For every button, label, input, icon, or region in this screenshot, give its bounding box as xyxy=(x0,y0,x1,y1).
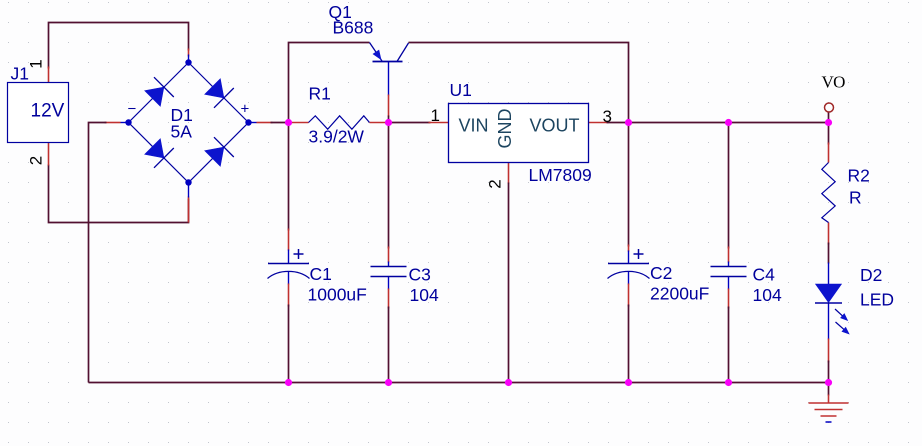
wire bridge top pin stub xyxy=(188,55,190,63)
wire vo stub xyxy=(828,112,830,123)
junction at 828,122 xyxy=(825,119,832,126)
LED D2 xyxy=(815,284,849,334)
node vo terminal xyxy=(825,103,834,112)
diode D1 lower-right xyxy=(205,137,234,166)
capacitor C4 xyxy=(711,267,747,277)
svg-text:R1: R1 xyxy=(309,84,331,104)
wire C2 bottom to ground rail xyxy=(628,272,630,383)
wire J1 pin 1 to bridge AC top xyxy=(49,23,189,83)
wire node C down to C4 xyxy=(728,123,730,267)
transistor Q1 xyxy=(370,43,409,62)
ground symbol xyxy=(809,403,849,422)
wire C1 bottom to ground rail xyxy=(288,272,290,383)
svg-text:3.9/2W: 3.9/2W xyxy=(309,127,365,147)
svg-text:2: 2 xyxy=(27,156,46,165)
svg-text:B688: B688 xyxy=(333,18,374,38)
svg-text:R: R xyxy=(849,188,862,208)
svg-text:VIN: VIN xyxy=(459,116,489,136)
svg-text:2200uF: 2200uF xyxy=(650,284,709,304)
junction at 288,382 xyxy=(285,379,292,386)
svg-text:+: + xyxy=(241,101,250,118)
svg-text:VO: VO xyxy=(822,73,846,92)
svg-text:D2: D2 xyxy=(860,265,882,285)
wire U1 pin 2 to ground rail xyxy=(508,163,510,383)
svg-text:12V: 12V xyxy=(31,101,65,122)
junction bridge plus node xyxy=(245,119,251,125)
junction at 728,122 xyxy=(725,119,732,126)
wire node B to U1 pin 1 xyxy=(389,122,449,124)
svg-text:C1: C1 xyxy=(310,264,332,284)
junction bridge top AC xyxy=(185,59,191,65)
regulator U1 xyxy=(449,104,589,163)
svg-text:LM7809: LM7809 xyxy=(529,165,592,185)
wire Q1 collector to output node xyxy=(409,43,629,123)
junction at 288,122 xyxy=(285,119,292,126)
junction at 628,382 xyxy=(625,379,632,386)
svg-text:C2: C2 xyxy=(650,263,672,283)
wire U1 pin 3 to output node xyxy=(589,122,629,124)
resistor R2 xyxy=(822,163,835,223)
wire ground stem xyxy=(828,383,830,403)
junction at 388,122 xyxy=(385,119,392,126)
wire J1 pin 2 to bridge AC bottom xyxy=(49,143,189,223)
wire output bus to C2 C4 and vo xyxy=(629,122,829,124)
svg-text:5A: 5A xyxy=(171,122,193,142)
svg-text:3: 3 xyxy=(603,107,612,126)
svg-text:U1: U1 xyxy=(450,80,472,100)
connector J1 xyxy=(8,64,69,143)
wire node B down to C3 xyxy=(388,123,390,267)
svg-text:104: 104 xyxy=(410,285,439,305)
wire node A down to C1 xyxy=(288,123,290,264)
wire bridge minus to ground rail xyxy=(89,123,129,383)
junction bridge minus node xyxy=(125,119,131,125)
svg-text:1000uF: 1000uF xyxy=(308,285,367,305)
diode D1 upper-right xyxy=(205,79,234,108)
svg-text:LED: LED xyxy=(860,290,894,310)
wire vo node to R2 xyxy=(828,123,830,163)
bridge rectifier D1 diamond xyxy=(129,63,249,183)
resistor R1 xyxy=(289,116,389,129)
svg-text:104: 104 xyxy=(753,285,782,305)
svg-text:2: 2 xyxy=(486,179,505,188)
diode D1 upper-left xyxy=(145,77,174,106)
wire node A up to Q1 emitter xyxy=(289,43,370,123)
svg-text:C3: C3 xyxy=(409,265,431,285)
wire C4 bottom to ground rail xyxy=(728,277,730,383)
capacitor C1 xyxy=(268,249,310,279)
wire D2 cathode to ground rail xyxy=(828,303,830,383)
svg-text:1: 1 xyxy=(27,59,46,68)
junction at 628,122 xyxy=(625,119,632,126)
diode D1 lower-left xyxy=(145,139,174,168)
wire output node down to C2 xyxy=(628,123,630,264)
junction at 728,382 xyxy=(725,379,732,386)
svg-text:VOUT: VOUT xyxy=(530,116,580,136)
wire R2 to D2 anode xyxy=(828,223,830,285)
junction bridge bottom AC xyxy=(185,179,191,185)
svg-text:GND: GND xyxy=(495,109,515,149)
svg-text:R2: R2 xyxy=(848,166,870,186)
svg-text:C4: C4 xyxy=(753,265,776,285)
capacitor C3 xyxy=(371,267,407,277)
capacitor C2 xyxy=(608,249,650,279)
wire ground rail xyxy=(89,382,829,384)
wire bridge plus to node A xyxy=(249,122,289,124)
junction at 828,382 xyxy=(825,379,832,386)
svg-text:1: 1 xyxy=(431,106,440,125)
svg-text:−: − xyxy=(128,101,137,118)
wire C3 bottom to ground rail xyxy=(388,277,390,383)
junction at 388,382 xyxy=(385,379,392,386)
wire Q1 base to node B xyxy=(388,62,390,123)
junction at 508,382 xyxy=(505,379,512,386)
